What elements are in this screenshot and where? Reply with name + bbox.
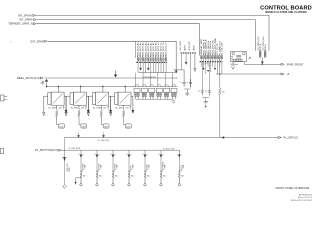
SPKR_FRONT terminator <box>281 63 284 65</box>
header P6 <box>164 85 170 100</box>
connector J1 box <box>135 41 137 58</box>
header common ground line <box>136 99 174 100</box>
svg-text:PL_LED(7:0): PL_LED(7:0) <box>98 140 110 142</box>
svg-text:EXT_SPKR: EXT_SPKR <box>30 39 44 43</box>
button string SW3 <box>112 150 114 172</box>
svg-text:REEL_MOT_A0: REEL_MOT_A0 <box>137 42 140 57</box>
svg-text:GND_B: GND_B <box>265 43 267 50</box>
ground tick 4 <box>130 106 132 109</box>
resistor R20 <box>78 105 81 124</box>
resistor R10 <box>56 105 59 124</box>
svg-text:INT_SPKR-: INT_SPKR- <box>19 18 33 22</box>
svg-text:SPKR_RET: SPKR_RET <box>189 40 191 50</box>
J2 wire arrows <box>202 68 204 70</box>
svg-text:PL_BUTTON(3:0): PL_BUTTON(3:0) <box>35 148 58 152</box>
wire INT_SPKR- <box>37 20 255 51</box>
wire branch to caps <box>174 70 185 79</box>
capacitor C3 <box>201 88 204 96</box>
svg-text:GND_A: GND_A <box>259 43 262 50</box>
svg-text:INT_SPKR+: INT_SPKR+ <box>18 13 33 17</box>
connector J4 wires <box>181 54 183 70</box>
header J3 wires <box>261 58 263 62</box>
svg-text:C3: C3 <box>198 91 200 93</box>
svg-text:LED: LED <box>126 127 130 129</box>
J1 collector line <box>139 72 177 74</box>
header P5 <box>156 85 162 100</box>
hop arc <box>205 63 208 65</box>
svg-text:RL_REV: RL_REV <box>71 108 79 110</box>
capacitor C1 <box>183 79 186 87</box>
header P7 <box>171 85 177 100</box>
power LED string D9 <box>64 138 66 185</box>
ground A <box>185 92 189 96</box>
wire TERMDET_SPKR <box>37 24 200 56</box>
wire join caps A <box>184 89 190 92</box>
svg-text:TERMDET_SPKR_N: TERMDET_SPKR_N <box>8 22 32 26</box>
wire to C3 <box>201 62 203 88</box>
ground tick 1 <box>63 106 65 109</box>
relay K2 RL_REV <box>65 86 90 116</box>
svg-text:SPKR_FRONT: SPKR_FRONT <box>287 63 304 66</box>
relay K3 RL_PLAY <box>87 86 112 116</box>
button string SW7 <box>178 150 180 172</box>
wire EXT_SPKR <box>48 41 176 70</box>
header P4 <box>149 85 155 100</box>
svg-text:C1: C1 <box>180 82 182 84</box>
svg-text:FRONT PANEL INTERFACE: FRONT PANEL INTERFACE <box>276 187 310 190</box>
+12V supply symbol <box>45 79 48 86</box>
relay K4 RL_REC <box>110 86 135 116</box>
diode D9 <box>63 185 67 189</box>
button string SW1 <box>80 150 82 172</box>
resistor R40 <box>123 105 126 124</box>
header P2 <box>134 85 140 100</box>
svg-text:LED: LED <box>59 127 63 129</box>
header J3 pins <box>259 51 261 53</box>
svg-text:REEL_MOT(11:0): REEL_MOT(11:0) <box>17 76 40 80</box>
svg-text:CONTROL BOARD: CONTROL BOARD <box>260 6 312 12</box>
ground speaker <box>231 62 234 70</box>
relay supply bus <box>47 86 178 88</box>
PL_INT terminator <box>278 136 281 138</box>
svg-text:REEL_MOT_C3: REEL_MOT_C3 <box>166 42 168 57</box>
edge connector E1 <box>1 95 4 101</box>
svg-text:C4: C4 <box>205 91 207 93</box>
button string SW4 <box>128 150 130 172</box>
svg-text:REEL_MOT_A2: REEL_MOT_A2 <box>142 42 145 57</box>
J1 drops to headers <box>135 73 137 87</box>
LED D2 <box>81 124 87 128</box>
ground tick 2 <box>85 106 87 109</box>
button string SW6 <box>160 150 162 172</box>
svg-text:RL_FWD: RL_FWD <box>48 108 57 110</box>
svg-text:DWG-0519 12/1/2007: DWG-0519 12/1/2007 <box>291 200 313 202</box>
resistor R9 <box>219 74 221 99</box>
button string SW5 <box>144 150 146 172</box>
svg-text:B+: B+ <box>41 83 43 85</box>
svg-text:PL_INT(3:0): PL_INT(3:0) <box>284 135 298 139</box>
LED D4 <box>126 124 132 128</box>
svg-text:SPKR: SPKR <box>232 55 234 60</box>
LED D3 <box>103 124 109 128</box>
hops on REEL bus <box>143 77 146 78</box>
junction cross <box>205 105 207 107</box>
edge connector E2 <box>0 149 3 154</box>
svg-text:MODELS CLATR48 AND CLATR48D: MODELS CLATR48 AND CLATR48D <box>265 11 307 14</box>
bus ripper arrow <box>114 71 117 78</box>
svg-text:RL_REC: RL_REC <box>115 108 123 110</box>
svg-text:LS1 8ohm: LS1 8ohm <box>230 64 239 66</box>
arrow tap <box>175 70 177 73</box>
svg-text:PL_BTN_ROW: PL_BTN_ROW <box>69 148 81 150</box>
button string SW2 <box>96 150 98 172</box>
wire J2 pin8 to +5 rail <box>216 73 281 75</box>
svg-text:APPENDIX B: APPENDIX B <box>299 194 313 197</box>
chassis mark <box>248 57 250 59</box>
relay K1 RL_FWD <box>43 86 68 116</box>
connector J4 pin band <box>181 52 196 54</box>
svg-text:PL_BTN_COM: PL_BTN_COM <box>163 148 175 150</box>
bus PL_LED <box>65 59 279 138</box>
speaker LS1 <box>231 51 247 61</box>
capacitor C2 <box>189 79 192 87</box>
connector J2 pin wires <box>200 59 202 67</box>
connector J1 pins <box>137 58 139 61</box>
ground B <box>204 100 208 104</box>
bus PL_BUTTON <box>61 150 179 155</box>
resistor R30 <box>100 105 103 124</box>
bus width mark <box>42 81 45 85</box>
wire speaker to SPKR_FRONT <box>244 62 281 65</box>
svg-text:RL_PLAY: RL_PLAY <box>93 107 102 110</box>
J1 pin number band <box>136 61 167 63</box>
bus start dot <box>46 86 48 88</box>
svg-text:REEL_MOT_A3: REEL_MOT_A3 <box>144 42 147 57</box>
ground tick 3 <box>107 106 109 109</box>
wire hook SW1 <box>76 178 81 182</box>
header P3 <box>141 85 147 100</box>
svg-text:LED: LED <box>82 127 86 129</box>
svg-text:LED: LED <box>104 127 108 129</box>
svg-text:AGND: AGND <box>184 45 187 51</box>
connector J1 pin wires <box>137 61 139 73</box>
wire join caps B <box>202 98 209 100</box>
bus REEL_MOT <box>45 77 178 79</box>
svg-text:C2: C2 <box>186 82 188 84</box>
wire to C4 <box>208 62 210 88</box>
capacitor C4 <box>208 88 211 96</box>
+5 terminator <box>281 73 284 75</box>
svg-text:AGND: AGND <box>193 45 196 51</box>
svg-text:EXT_SPKR: EXT_SPKR <box>180 40 182 50</box>
J2 pin number band <box>200 61 223 63</box>
wire INT_SPKR+ <box>36 15 269 50</box>
svg-text:REEL_MOT_A1: REEL_MOT_A1 <box>139 42 142 57</box>
LED D1 <box>59 124 65 128</box>
svg-text:PL_CLK_OUT: PL_CLK_OUT <box>222 42 224 56</box>
svg-text:Sheet 19 of 21: Sheet 19 of 21 <box>298 196 313 199</box>
connector J2 pins <box>200 56 202 59</box>
